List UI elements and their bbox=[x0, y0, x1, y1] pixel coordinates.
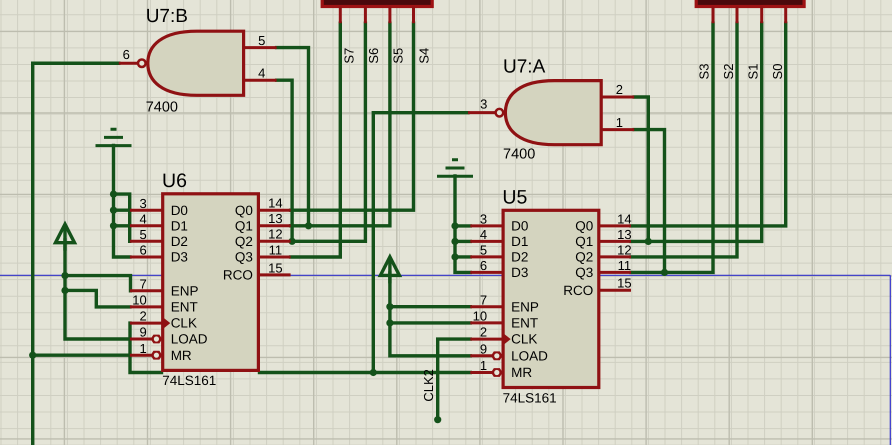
svg-text:2: 2 bbox=[139, 309, 146, 324]
svg-text:10: 10 bbox=[132, 293, 146, 308]
svg-text:S7: S7 bbox=[341, 48, 356, 64]
svg-text:10: 10 bbox=[473, 309, 487, 324]
svg-text:14: 14 bbox=[268, 196, 282, 211]
svg-text:4: 4 bbox=[480, 227, 487, 242]
svg-text:D2: D2 bbox=[511, 250, 528, 265]
svg-text:4: 4 bbox=[139, 211, 146, 226]
svg-text:11: 11 bbox=[269, 242, 283, 257]
svg-text:MR: MR bbox=[511, 365, 532, 380]
svg-text:D3: D3 bbox=[171, 250, 188, 265]
svg-text:D2: D2 bbox=[171, 234, 188, 249]
svg-text:74LS161: 74LS161 bbox=[503, 390, 557, 405]
svg-text:15: 15 bbox=[617, 276, 631, 291]
svg-text:ENT: ENT bbox=[171, 300, 198, 315]
svg-text:LOAD: LOAD bbox=[511, 348, 548, 363]
svg-text:7: 7 bbox=[139, 276, 146, 291]
svg-text:6: 6 bbox=[123, 47, 130, 62]
svg-text:U6: U6 bbox=[162, 170, 187, 192]
svg-text:1: 1 bbox=[480, 358, 487, 373]
svg-text:D0: D0 bbox=[511, 219, 528, 234]
svg-text:Q3: Q3 bbox=[235, 250, 253, 265]
svg-text:12: 12 bbox=[268, 227, 282, 242]
svg-text:U7:B: U7:B bbox=[146, 6, 188, 27]
svg-text:D0: D0 bbox=[171, 203, 188, 218]
svg-text:2: 2 bbox=[616, 82, 623, 97]
svg-text:S5: S5 bbox=[391, 48, 406, 64]
svg-text:7400: 7400 bbox=[503, 147, 535, 163]
svg-text:5: 5 bbox=[480, 243, 487, 258]
svg-text:4: 4 bbox=[258, 65, 265, 80]
svg-text:RCO: RCO bbox=[223, 268, 253, 283]
svg-text:RCO: RCO bbox=[563, 283, 593, 298]
svg-text:11: 11 bbox=[618, 258, 632, 273]
svg-text:3: 3 bbox=[139, 196, 146, 211]
svg-text:14: 14 bbox=[617, 211, 631, 226]
svg-text:LOAD: LOAD bbox=[171, 332, 208, 347]
svg-text:Q1: Q1 bbox=[575, 234, 593, 249]
svg-text:7400: 7400 bbox=[146, 100, 178, 116]
svg-text:D3: D3 bbox=[511, 265, 528, 280]
svg-text:S3: S3 bbox=[697, 64, 712, 80]
svg-text:CLK: CLK bbox=[511, 332, 537, 347]
svg-text:Q2: Q2 bbox=[575, 250, 593, 265]
svg-text:12: 12 bbox=[617, 242, 631, 257]
svg-text:1: 1 bbox=[616, 115, 623, 130]
svg-text:2: 2 bbox=[480, 325, 487, 340]
svg-text:9: 9 bbox=[139, 325, 146, 340]
svg-text:3: 3 bbox=[480, 212, 487, 227]
svg-text:Q2: Q2 bbox=[235, 234, 253, 249]
svg-text:S0: S0 bbox=[770, 64, 785, 80]
svg-text:6: 6 bbox=[480, 258, 487, 273]
svg-text:MR: MR bbox=[171, 348, 192, 363]
svg-text:13: 13 bbox=[268, 211, 282, 226]
svg-text:6: 6 bbox=[139, 243, 146, 258]
svg-text:9: 9 bbox=[480, 341, 487, 356]
svg-text:13: 13 bbox=[617, 227, 631, 242]
svg-text:Q3: Q3 bbox=[575, 265, 593, 280]
svg-text:U7:A: U7:A bbox=[503, 57, 546, 78]
svg-text:3: 3 bbox=[480, 96, 487, 111]
svg-text:1: 1 bbox=[139, 341, 146, 356]
svg-text:5: 5 bbox=[139, 227, 146, 242]
svg-text:ENT: ENT bbox=[511, 316, 538, 331]
svg-text:D1: D1 bbox=[511, 234, 528, 249]
svg-text:CLK2: CLK2 bbox=[421, 369, 436, 402]
svg-text:ENP: ENP bbox=[171, 283, 199, 298]
svg-text:Q0: Q0 bbox=[235, 203, 253, 218]
svg-text:S4: S4 bbox=[417, 48, 432, 64]
svg-text:S2: S2 bbox=[721, 64, 736, 80]
svg-text:S1: S1 bbox=[746, 64, 761, 80]
svg-text:U5: U5 bbox=[502, 187, 527, 209]
svg-text:15: 15 bbox=[268, 260, 282, 275]
svg-text:74LS161: 74LS161 bbox=[162, 373, 216, 388]
svg-text:Q1: Q1 bbox=[235, 218, 253, 233]
svg-text:7: 7 bbox=[480, 292, 487, 307]
svg-text:D1: D1 bbox=[171, 218, 188, 233]
svg-text:5: 5 bbox=[258, 33, 265, 48]
svg-text:CLK: CLK bbox=[171, 316, 197, 331]
svg-text:Q0: Q0 bbox=[575, 219, 593, 234]
svg-text:S6: S6 bbox=[366, 48, 381, 64]
svg-text:ENP: ENP bbox=[511, 299, 539, 314]
